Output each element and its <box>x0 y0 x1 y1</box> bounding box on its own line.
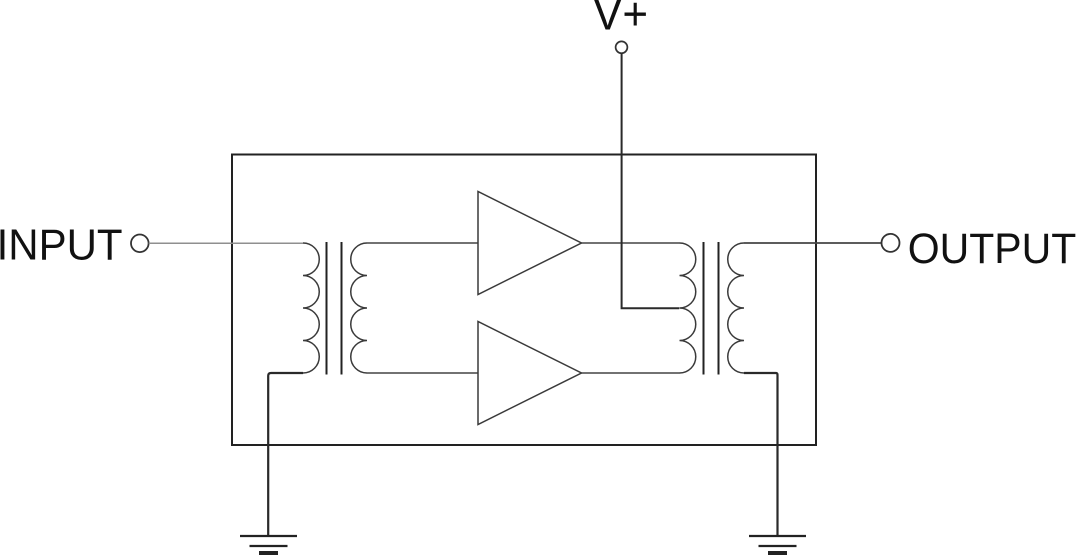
wire: amp A2 output to T2 primary bottom <box>582 372 680 374</box>
wire: V+ feed to T2 center tap <box>622 53 680 308</box>
svg-text:OUTPUT: OUTPUT <box>908 224 1076 272</box>
wire: T1 secondary bottom to amp A2 <box>367 372 478 374</box>
OUTPUT terminal <box>882 234 900 252</box>
wire: amp A1 output to T2 primary top <box>582 242 680 244</box>
transformer T2 core <box>703 242 705 375</box>
transformer T2 primary winding <box>680 243 696 373</box>
wire: T1 primary bottom to ground <box>268 373 303 535</box>
wire: T1 secondary top to amp A1 <box>367 242 478 244</box>
transformer T1 primary winding <box>303 243 319 373</box>
transformer T2 secondary winding <box>728 243 744 373</box>
transformer T1 secondary winding <box>351 243 367 373</box>
ground (left) <box>240 536 297 554</box>
V+ terminal <box>616 41 628 53</box>
svg-text:V+: V+ <box>593 0 648 40</box>
INPUT terminal <box>131 235 149 253</box>
amplifier A2 <box>478 322 582 425</box>
wire: T2 secondary bottom to ground <box>744 373 778 535</box>
ground (right) <box>749 536 806 554</box>
wire: T2 secondary top to OUTPUT <box>744 242 881 244</box>
enclosure box <box>232 155 816 446</box>
transformer T1 core <box>326 242 328 375</box>
wire: INPUT lead to T1 primary <box>149 242 303 244</box>
amplifier A1 <box>478 192 582 295</box>
svg-text:INPUT: INPUT <box>0 221 123 270</box>
